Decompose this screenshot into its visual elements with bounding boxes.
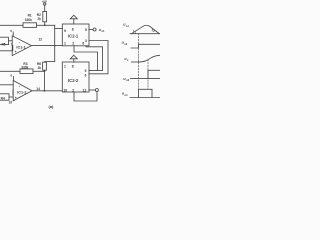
svg-text:R1: R1 bbox=[28, 14, 32, 18]
svg-text:1: 1 bbox=[64, 65, 66, 69]
svg-text:3: 3 bbox=[85, 39, 87, 43]
svg-text:o4: o4 bbox=[124, 93, 128, 97]
svg-text:c: c bbox=[127, 59, 129, 62]
svg-text:330k: 330k bbox=[25, 18, 32, 22]
svg-text:IC2-2: IC2-2 bbox=[68, 78, 79, 83]
svg-text:+: + bbox=[15, 50, 17, 54]
svg-text:o3: o3 bbox=[126, 78, 130, 82]
svg-text:1: 1 bbox=[64, 42, 66, 46]
svg-text:10: 10 bbox=[9, 101, 13, 105]
svg-text:12: 12 bbox=[83, 88, 87, 92]
svg-text:o1: o1 bbox=[126, 24, 130, 28]
svg-text:2: 2 bbox=[72, 42, 74, 46]
svg-text:10: 10 bbox=[63, 88, 67, 92]
svg-text:o1: o1 bbox=[101, 29, 105, 33]
svg-text:IC1-1: IC1-1 bbox=[16, 46, 25, 50]
svg-text:8: 8 bbox=[10, 73, 12, 77]
svg-text:2k: 2k bbox=[37, 17, 41, 21]
svg-text:R5: R5 bbox=[2, 42, 6, 46]
svg-text:2k: 2k bbox=[38, 66, 42, 70]
svg-text:14: 14 bbox=[36, 87, 40, 91]
svg-text:2: 2 bbox=[72, 88, 74, 92]
svg-text:8: 8 bbox=[72, 65, 74, 69]
svg-text:6: 6 bbox=[10, 29, 12, 33]
svg-text:330k: 330k bbox=[21, 66, 28, 70]
svg-text:9: 9 bbox=[64, 29, 66, 33]
svg-text:5: 5 bbox=[85, 28, 87, 32]
svg-text:+: + bbox=[15, 96, 17, 100]
svg-text:IC2-1: IC2-1 bbox=[68, 33, 79, 38]
svg-text:-: - bbox=[19, 83, 21, 88]
svg-text:12: 12 bbox=[39, 37, 43, 41]
svg-text:8: 8 bbox=[72, 27, 74, 31]
svg-text:o2: o2 bbox=[124, 42, 128, 46]
svg-text:5: 5 bbox=[85, 69, 87, 73]
svg-text:R4: R4 bbox=[1, 96, 5, 100]
svg-text:IC1-2: IC1-2 bbox=[17, 90, 26, 94]
svg-text:6: 6 bbox=[85, 73, 87, 77]
svg-text:(a): (a) bbox=[49, 104, 55, 109]
svg-text:+5V: +5V bbox=[42, 0, 47, 3]
